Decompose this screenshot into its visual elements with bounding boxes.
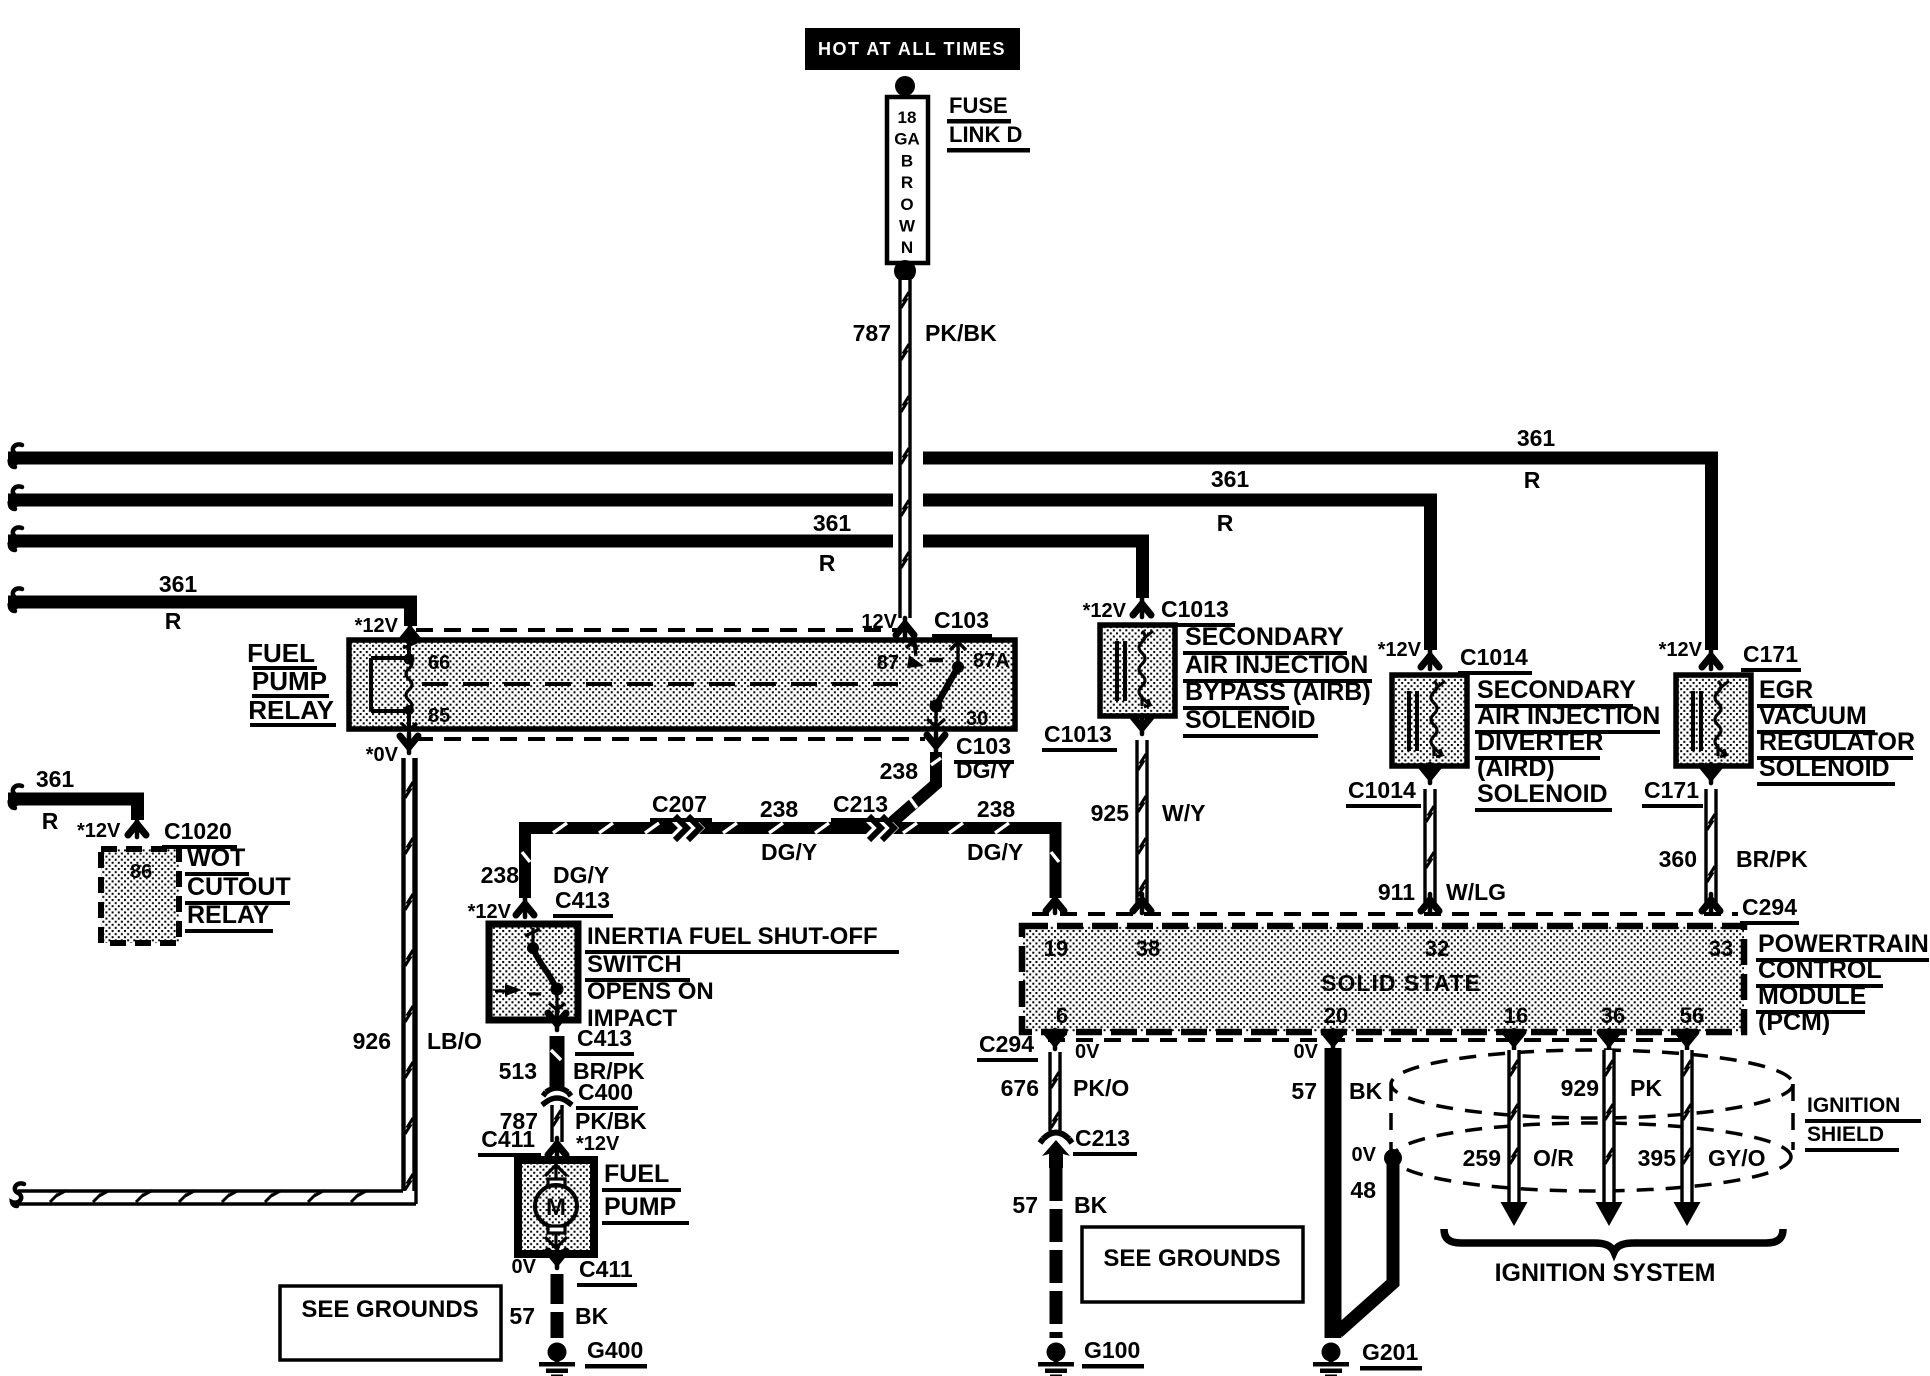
svg-text:C171: C171 (1743, 641, 1798, 667)
svg-text:B: B (901, 151, 913, 170)
arrowhead pin 16 (1501, 1202, 1528, 1226)
svg-text:SOLENOID: SOLENOID (1477, 780, 1608, 808)
inertia switch contacts (495, 928, 565, 1012)
wire 926 LB/O vertical (403, 758, 416, 1191)
svg-text:C1014: C1014 (1460, 644, 1528, 670)
svg-text:LINK D: LINK D (949, 122, 1022, 147)
wire 361 R bus D (to fuel pump relay) (8, 602, 411, 626)
svg-text:HOT AT ALL TIMES: HOT AT ALL TIMES (818, 39, 1006, 59)
dashed harness line relay bottom (416, 737, 925, 741)
svg-text:16: 16 (1504, 1003, 1528, 1028)
svg-text:C213: C213 (1075, 1125, 1130, 1151)
dashed harness line relay top (416, 628, 897, 632)
svg-text:238: 238 (481, 862, 520, 888)
svg-text:*0V: *0V (366, 744, 399, 766)
wire 238 DG/Y horizontal run (525, 828, 1056, 898)
svg-text:513: 513 (499, 1058, 537, 1084)
svg-text:33: 33 (1709, 936, 1733, 961)
svg-text:R: R (1524, 467, 1541, 493)
relay contacts 87 87A 30 (906, 641, 966, 662)
svg-text:57: 57 (1291, 1078, 1317, 1104)
ground G400 (548, 1343, 567, 1362)
WOT cutout relay body (pin 86) (101, 849, 179, 943)
svg-text:361: 361 (1211, 466, 1250, 492)
note box SEE GROUNDS left (280, 1286, 501, 1360)
svg-text:R: R (165, 608, 182, 634)
svg-text:PK/O: PK/O (1073, 1075, 1129, 1101)
svg-text:12V: 12V (861, 611, 897, 633)
connector PCM pin 19 (1046, 894, 1064, 913)
svg-text:87A: 87A (973, 650, 1010, 672)
svg-text:REGULATOR: REGULATOR (1759, 728, 1915, 756)
svg-text:SOLENOID: SOLENOID (1185, 706, 1316, 734)
svg-text:M: M (546, 1194, 566, 1221)
wire 361 R bus C (to C1013) (8, 541, 1143, 598)
svg-text:57: 57 (1012, 1192, 1038, 1218)
svg-text:PUMP: PUMP (604, 1193, 676, 1221)
connector C171 bottom (1702, 764, 1720, 783)
svg-text:MODULE: MODULE (1758, 982, 1866, 1010)
svg-text:SECONDARY: SECONDARY (1477, 676, 1636, 704)
fuel pump motor symbol (535, 1162, 577, 1248)
svg-text:FUEL: FUEL (247, 638, 315, 668)
svg-text:395: 395 (1638, 1145, 1677, 1171)
svg-text:SWITCH: SWITCH (587, 951, 682, 978)
svg-text:0V: 0V (1352, 1144, 1377, 1166)
svg-text:911: 911 (1378, 879, 1415, 905)
svg-text:W: W (899, 217, 916, 236)
svg-text:32: 32 (1425, 936, 1449, 961)
wire from pin 56 to ignition system (1681, 1050, 1694, 1202)
connector C1014 top (1421, 650, 1439, 669)
svg-text:361: 361 (813, 510, 852, 536)
svg-text:W/LG: W/LG (1446, 879, 1506, 905)
svg-text:SEE GROUNDS: SEE GROUNDS (1103, 1245, 1280, 1272)
wire 360 BR/PK (1705, 789, 1718, 910)
svg-text:361: 361 (159, 571, 198, 597)
svg-text:G100: G100 (1084, 1337, 1140, 1363)
svg-text:W/Y: W/Y (1162, 800, 1205, 826)
svg-text:DG/Y: DG/Y (956, 757, 1012, 783)
svg-text:EGR: EGR (1759, 676, 1813, 704)
relay K1 body (349, 640, 1015, 729)
svg-text:VACUUM: VACUUM (1759, 702, 1867, 730)
svg-text:0V: 0V (1075, 1041, 1100, 1063)
svg-text:*12V: *12V (355, 615, 399, 637)
PCM solid state module body (1022, 926, 1744, 1032)
svg-text:C207: C207 (652, 791, 707, 817)
connector C171 top (1702, 650, 1720, 669)
inline connector C400 (542, 1088, 572, 1105)
svg-text:LB/O: LB/O (427, 1028, 482, 1054)
svg-text:RELAY: RELAY (248, 695, 334, 725)
EGR vacuum regulator solenoid L3 body (1676, 675, 1751, 766)
connector PCM pin 16 (1505, 1030, 1523, 1049)
svg-text:48: 48 (1350, 1177, 1376, 1203)
connector PCM pin 33 (1702, 894, 1720, 913)
svg-text:19: 19 (1044, 936, 1068, 961)
svg-text:BK: BK (575, 1303, 609, 1329)
svg-text:BR/PK: BR/PK (1736, 846, 1808, 872)
svg-text:85: 85 (428, 705, 450, 727)
svg-text:GY/O: GY/O (1708, 1145, 1766, 1171)
dashed harness line PCM bottom (1048, 1038, 1690, 1042)
connector PCM pin 56 (1678, 1030, 1696, 1049)
svg-text:DIVERTER: DIVERTER (1477, 728, 1603, 756)
svg-text:FUSE: FUSE (949, 93, 1008, 118)
hatches + continuation curl bottom-left wire (50, 1191, 66, 1203)
wire 926 corner to left bus (403, 1191, 417, 1204)
wire 57 BK to G100 (1050, 1168, 1063, 1338)
AIRB solenoid L1 body (1100, 625, 1175, 716)
ground G201 (1322, 1343, 1341, 1362)
svg-text:C413: C413 (555, 887, 610, 913)
node 0V on shield (1384, 1149, 1402, 1167)
svg-text:C171: C171 (1644, 777, 1699, 803)
inline connector C213 lower (1040, 1133, 1072, 1144)
ground G100 (1047, 1343, 1066, 1362)
node bottom of fuse link (894, 260, 916, 282)
svg-text:SEE GROUNDS: SEE GROUNDS (301, 1296, 478, 1323)
svg-text:C294: C294 (1742, 894, 1797, 920)
svg-text:CONTROL: CONTROL (1758, 956, 1882, 984)
wire hatch ticks on 238 run (553, 823, 659, 833)
svg-text:C1014: C1014 (1348, 777, 1416, 803)
wire 48 from ignition shield to G201 (1338, 1158, 1393, 1332)
svg-text:PK: PK (1630, 1075, 1662, 1101)
svg-text:WOT: WOT (187, 844, 245, 872)
svg-text:(AIRD): (AIRD) (1477, 754, 1555, 782)
svg-text:BK: BK (1074, 1192, 1108, 1218)
dashed link coil to contacts (422, 682, 898, 686)
connector C1013 top (1133, 598, 1151, 617)
note box SEE GROUNDS right (1082, 1227, 1303, 1302)
svg-text:56: 56 (1680, 1003, 1704, 1028)
wire from pin 16 to ignition system (1508, 1050, 1521, 1202)
svg-text:929: 929 (1561, 1075, 1599, 1101)
svg-text:*12V: *12V (468, 901, 512, 923)
AIRD solenoid L2 body (1392, 675, 1467, 766)
svg-text:PK/BK: PK/BK (575, 1108, 647, 1134)
svg-text:R: R (901, 173, 913, 192)
connector relay pin 66 feed (401, 624, 419, 643)
connector PCM pin 20 (1324, 1030, 1342, 1049)
wire 787 PK/BK to fuel pump (551, 1105, 564, 1142)
svg-text:238: 238 (760, 796, 799, 822)
svg-text:86: 86 (130, 861, 152, 883)
wire 361 R to WOT cutout relay (8, 799, 138, 820)
svg-text:CUTOUT: CUTOUT (187, 873, 291, 901)
inline connector C213 junction (866, 815, 892, 841)
svg-text:SHIELD: SHIELD (1807, 1123, 1884, 1146)
relay coil 66-85 (371, 642, 417, 741)
svg-text:DG/Y: DG/Y (761, 839, 817, 865)
svg-text:361: 361 (36, 766, 75, 792)
svg-text:C103: C103 (934, 607, 989, 633)
power tag HOT AT ALL TIMES (805, 28, 1020, 70)
svg-text:OPENS ON: OPENS ON (587, 978, 714, 1005)
svg-text:O/R: O/R (1533, 1145, 1574, 1171)
wire 911 W/LG (1424, 789, 1437, 910)
svg-text:C1020: C1020 (164, 818, 232, 844)
fuel pump M1 body (518, 1160, 594, 1254)
dashed harness line PCM top (1032, 912, 1738, 916)
brace ignition system (1444, 1229, 1783, 1252)
svg-text:AIR INJECTION: AIR INJECTION (1185, 651, 1368, 679)
wire 513 BR/PK (550, 1036, 565, 1088)
svg-text:N: N (901, 238, 913, 257)
inertia fuel shut-off switch body (489, 924, 578, 1020)
svg-text:925: 925 (1091, 800, 1130, 826)
connector C413 top (516, 898, 534, 917)
svg-text:C213: C213 (833, 791, 888, 817)
connector PCM pin 38 (1133, 894, 1151, 913)
connector C413 bottom (548, 1011, 566, 1030)
svg-text:G201: G201 (1362, 1339, 1418, 1365)
svg-text:361: 361 (1517, 425, 1556, 451)
connector C1020 (128, 818, 146, 837)
wire 361 R bus A (to C171) (8, 458, 1712, 650)
wire 925 W/Y (1136, 740, 1149, 910)
connector PCM pin 36 (1600, 1030, 1618, 1049)
connector relay pin 85 out (400, 734, 418, 753)
connector C411 bottom (548, 1249, 566, 1268)
svg-text:O: O (900, 195, 913, 214)
svg-text:926: 926 (353, 1028, 391, 1054)
svg-text:PUMP: PUMP (252, 666, 327, 696)
svg-text:BK: BK (1349, 1078, 1383, 1104)
connector 12V at C103 relay top (896, 618, 914, 637)
svg-text:259: 259 (1463, 1145, 1501, 1171)
svg-text:C413: C413 (577, 1025, 632, 1051)
svg-text:238: 238 (977, 796, 1016, 822)
svg-text:INERTIA FUEL SHUT-OFF: INERTIA FUEL SHUT-OFF (587, 923, 878, 950)
connector C1013 bottom (1133, 715, 1151, 734)
svg-text:30: 30 (966, 708, 988, 730)
svg-text:DG/Y: DG/Y (553, 862, 609, 888)
connector C103 pin 30 out (927, 733, 945, 752)
wire 787 PK/BK vertical (899, 280, 912, 618)
svg-text:R: R (42, 808, 59, 834)
svg-text:C1013: C1013 (1044, 721, 1112, 747)
svg-text:*12V: *12V (77, 820, 121, 842)
svg-text:238: 238 (880, 758, 919, 784)
svg-text:C1013: C1013 (1161, 596, 1229, 622)
svg-text:38: 38 (1136, 936, 1160, 961)
svg-text:C400: C400 (578, 1079, 633, 1105)
arrowhead pin 56 (1674, 1202, 1701, 1226)
fuse link F1 (18 GA BROWN) (887, 97, 928, 263)
svg-text:POWERTRAIN: POWERTRAIN (1758, 930, 1929, 958)
svg-text:R: R (819, 550, 836, 576)
svg-text:(PCM): (PCM) (1758, 1008, 1830, 1036)
svg-text:*12V: *12V (576, 1133, 620, 1155)
svg-text:20: 20 (1324, 1003, 1348, 1028)
svg-text:C411: C411 (579, 1256, 633, 1282)
svg-text:*12V: *12V (1659, 639, 1703, 661)
svg-text:C294: C294 (979, 1031, 1034, 1057)
arrowhead pin 36 (1596, 1202, 1623, 1226)
connector C294 pin 6 (1046, 1030, 1064, 1049)
svg-text:*12V: *12V (1083, 600, 1127, 622)
svg-text:6: 6 (1056, 1003, 1068, 1028)
svg-text:RELAY: RELAY (187, 901, 270, 929)
svg-text:C411: C411 (481, 1126, 535, 1152)
svg-text:SECONDARY: SECONDARY (1185, 623, 1344, 651)
svg-text:IGNITION SYSTEM: IGNITION SYSTEM (1495, 1259, 1716, 1287)
svg-text:0V: 0V (512, 1256, 537, 1278)
svg-text:57: 57 (509, 1303, 535, 1329)
svg-text:787: 787 (853, 320, 891, 346)
node top of fuse link (895, 76, 915, 96)
svg-text:SOLID STATE: SOLID STATE (1321, 970, 1481, 996)
svg-text:FUEL: FUEL (604, 1160, 669, 1188)
svg-text:676: 676 (1001, 1075, 1039, 1101)
svg-text:360: 360 (1659, 846, 1697, 872)
connector C1014 bottom (1421, 764, 1439, 783)
ignition shield cylinder (1391, 1050, 1793, 1191)
svg-text:BYPASS (AIRB): BYPASS (AIRB) (1185, 678, 1371, 706)
svg-text:PK/BK: PK/BK (925, 320, 997, 346)
svg-text:*12V: *12V (1378, 639, 1422, 661)
svg-text:AIR INJECTION: AIR INJECTION (1477, 702, 1660, 730)
connector C411 top of fuel pump (548, 1138, 566, 1157)
svg-text:R: R (1217, 510, 1234, 536)
svg-text:GA: GA (894, 130, 920, 149)
svg-text:87: 87 (877, 652, 899, 674)
wire 57 BK to G400 (551, 1274, 564, 1338)
svg-text:C103: C103 (956, 733, 1011, 759)
svg-text:36: 36 (1601, 1003, 1625, 1028)
connector PCM pin 32 (1421, 894, 1439, 913)
svg-text:SOLENOID: SOLENOID (1759, 754, 1890, 782)
wire from pin 36 to ignition system (1603, 1050, 1616, 1202)
svg-text:DG/Y: DG/Y (967, 839, 1023, 865)
svg-text:66: 66 (428, 652, 450, 674)
inline connector C207 (672, 815, 698, 841)
svg-text:0V: 0V (1294, 1041, 1319, 1063)
wire 238 DG/Y from relay 30 to C213 (888, 752, 936, 826)
wire 57 BK to G201 (1325, 1048, 1342, 1338)
svg-text:18: 18 (898, 108, 917, 127)
svg-text:G400: G400 (587, 1337, 643, 1363)
wire 676 PK/O (1049, 1052, 1062, 1131)
wire 361 R bus B (to C1014) (8, 500, 1431, 650)
svg-text:IGNITION: IGNITION (1807, 1094, 1900, 1117)
